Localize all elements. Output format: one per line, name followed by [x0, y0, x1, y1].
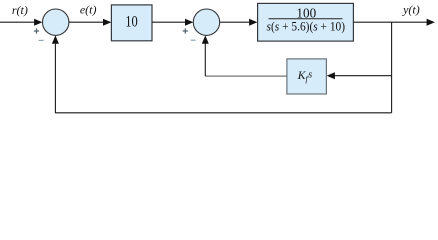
wire riser up to summer 2 — [204, 44, 206, 77]
arrowhead up into summer 2 — [202, 35, 209, 43]
arrowhead into summer 2 — [185, 19, 193, 26]
wire summer 2 to plant block — [220, 21, 250, 23]
svg-text:y(t): y(t) — [402, 3, 420, 17]
summing junction 2 — [193, 9, 219, 35]
wire from riser into rate block — [334, 75, 392, 77]
summing junction 1 — [43, 9, 69, 35]
plus sign at summer 2 — [183, 28, 188, 33]
minus sign at summer 1 — [39, 39, 44, 41]
arrowhead into block 10 — [103, 19, 111, 26]
arrowhead into plant block — [249, 19, 257, 26]
rate feedback block Kf s — [287, 59, 327, 94]
wire output — [353, 21, 427, 23]
wire rate block to summer 2 (gray run) — [205, 75, 287, 77]
arrowhead into rate block — [327, 72, 335, 79]
svg-text:e(t): e(t) — [80, 3, 97, 17]
wire input r(t) — [0, 21, 35, 23]
arrowhead up into summer 1 — [52, 35, 59, 43]
minus sign at summer 2 — [191, 39, 196, 41]
arrowhead into summer 1 — [34, 19, 42, 26]
output arrowhead — [427, 19, 435, 26]
svg-text:s(s + 5.6)(s + 10): s(s + 5.6)(s + 10) — [267, 19, 346, 33]
plant block G(s) — [258, 3, 354, 41]
wire summer1 to block 10 — [69, 21, 104, 23]
wire branch riser down from output — [391, 22, 393, 113]
plus sign at summer 1 — [34, 28, 39, 33]
wire block 10 to summer 2 — [152, 21, 186, 23]
block 10 — [111, 5, 152, 41]
wire outer feedback bottom — [55, 44, 391, 113]
fraction bar — [269, 18, 343, 20]
svg-text:r(t): r(t) — [12, 3, 28, 17]
svg-text:10: 10 — [125, 14, 138, 31]
